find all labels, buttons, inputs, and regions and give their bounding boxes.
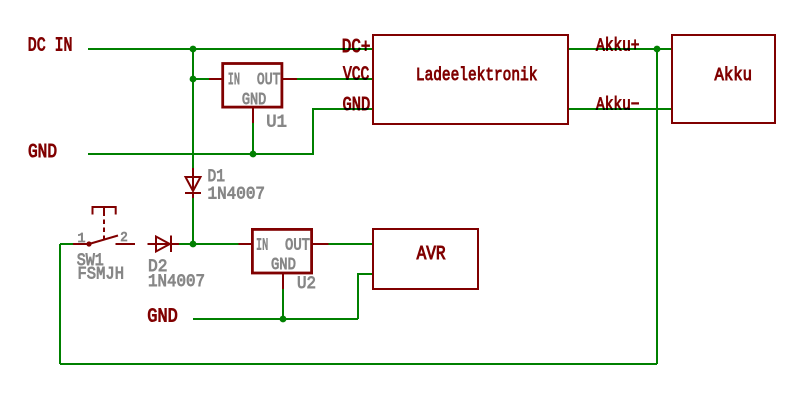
- box Akku: [672, 35, 775, 123]
- svg-text:U1: U1: [266, 111, 287, 132]
- junction DC IN / vertical: [190, 46, 197, 53]
- wire DC IN rail: [88, 48, 373, 50]
- svg-text:Ladeelektronik: Ladeelektronik: [416, 65, 538, 86]
- wire DC net vertical lower (D1 cathode to switch row): [192, 198, 194, 244]
- svg-text:Akku: Akku: [715, 65, 753, 86]
- wire DC net vertical upper (to D1 anode): [192, 49, 194, 168]
- svg-text:GND: GND: [343, 95, 371, 117]
- junction U1 GND on rail: [250, 151, 257, 158]
- pin U2 GND stub: [282, 274, 284, 289]
- wire GND elbow to Ladeelektronik: [313, 109, 373, 154]
- svg-text:OUT: OUT: [285, 235, 310, 255]
- regulator U1 body: [223, 64, 282, 108]
- switch SW1 lever: [89, 236, 118, 245]
- junction Akku+ / right vertical: [654, 46, 661, 53]
- svg-text:GND: GND: [271, 255, 296, 275]
- diode D2 cathode bar: [170, 236, 172, 253]
- box AVR: [373, 229, 478, 289]
- svg-text:Akku+: Akku+: [596, 35, 640, 56]
- svg-text:VCC: VCC: [343, 65, 369, 87]
- svg-text:U2: U2: [297, 273, 316, 294]
- pin U1 IN stub: [209, 78, 222, 80]
- diode D1 anode lead: [192, 168, 194, 177]
- diode D1 cathode lead: [192, 193, 194, 198]
- diode D1 cathode bar: [185, 192, 201, 194]
- switch SW1 actuator dashed link: [103, 220, 105, 240]
- wire Akku+: [568, 48, 672, 50]
- wire D2 cathode to U2 IN: [179, 243, 239, 245]
- wire right vertical: [656, 49, 658, 364]
- diode D2 triangle: [156, 237, 170, 252]
- box Ladeelektronik: [373, 35, 568, 124]
- wire Akku-: [568, 108, 672, 110]
- switch SW1 pivot contact: [86, 241, 91, 246]
- diode D1 triangle: [186, 177, 201, 192]
- wire U1 GND drop: [252, 123, 254, 154]
- pin U1 OUT stub: [283, 78, 297, 80]
- wire AVR GND elbow: [358, 274, 373, 319]
- svg-text:AVR: AVR: [417, 244, 446, 266]
- diode D2 anode lead: [148, 243, 157, 245]
- junction U1 IN tap: [190, 76, 197, 83]
- svg-text:Akku−: Akku−: [596, 94, 640, 115]
- svg-text:2: 2: [120, 229, 128, 245]
- svg-text:OUT: OUT: [257, 70, 281, 90]
- wire top GND rail: [88, 153, 314, 155]
- switch SW1 pin 2 stub: [116, 243, 136, 245]
- svg-text:DC+: DC+: [342, 37, 371, 59]
- wire U2 OUT to AVR: [329, 243, 374, 245]
- wire bottom GND rail: [193, 318, 358, 320]
- svg-text:1N4007: 1N4007: [148, 271, 205, 292]
- svg-text:IN: IN: [228, 70, 240, 90]
- diode D2 cathode lead: [171, 243, 179, 245]
- svg-text:GND: GND: [28, 142, 57, 164]
- svg-text:GND: GND: [242, 90, 266, 110]
- switch SW1 actuator bracket: [93, 207, 116, 216]
- pin U2 IN stub: [239, 243, 253, 245]
- junction D2 / vertical / U2 IN: [190, 241, 197, 248]
- pin U2 OUT stub: [312, 243, 329, 245]
- svg-text:FSMJH: FSMJH: [78, 263, 125, 284]
- wire bottom bus: [60, 363, 657, 365]
- svg-text:1: 1: [78, 230, 86, 246]
- wire U2 GND drop: [282, 289, 284, 319]
- junction U2 GND on bottom rail: [280, 316, 287, 323]
- pin U1 GND stub: [252, 108, 254, 123]
- wire U1 OUT to VCC: [297, 78, 373, 80]
- svg-text:1N4007: 1N4007: [208, 183, 266, 204]
- regulator U2 body: [252, 229, 311, 273]
- svg-text:DC IN: DC IN: [28, 36, 73, 58]
- wire left vertical: [59, 244, 61, 364]
- wire left feed to SW1: [60, 243, 73, 245]
- switch SW1 pin 1 stub: [73, 243, 89, 245]
- svg-text:IN: IN: [256, 235, 268, 255]
- wire U1 IN: [193, 78, 209, 80]
- svg-text:GND: GND: [147, 307, 178, 329]
